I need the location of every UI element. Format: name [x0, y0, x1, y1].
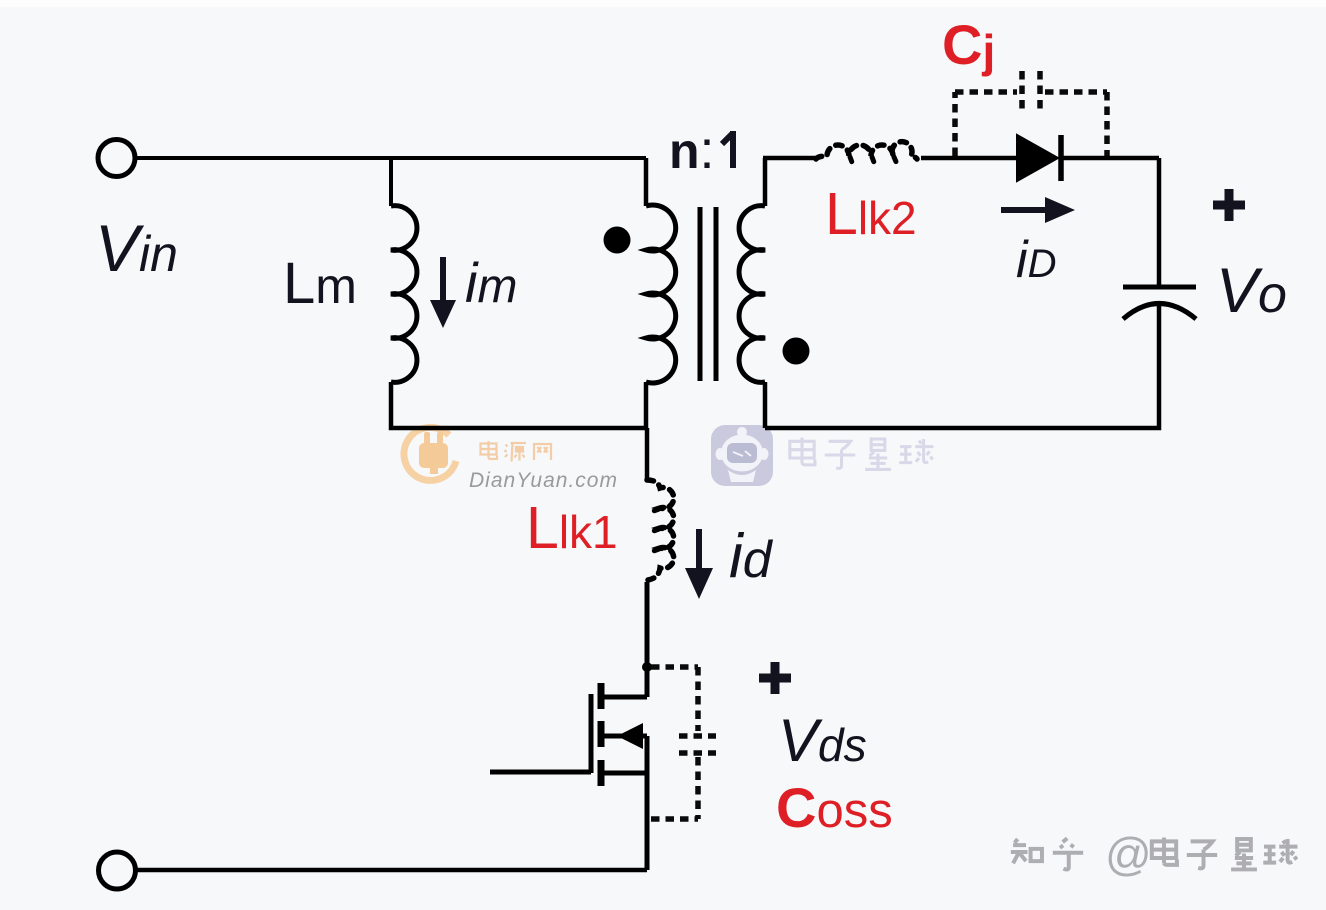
inductor Llk2 (dotted scribble)	[816, 142, 917, 159]
transformer primary winding	[646, 205, 676, 383]
node: drain junction dot	[642, 662, 652, 672]
inductor Llk1 (dotted scribble)	[647, 480, 674, 580]
arrow iD	[1001, 197, 1075, 223]
wire: secondary vertical bottom	[763, 382, 768, 428]
wire: Lm branch vertical bottom + left loop bottom rail	[391, 382, 646, 428]
transformer core	[700, 207, 716, 381]
watermark: dianyuan chinese text	[481, 441, 552, 462]
label + (output)	[1213, 189, 1245, 221]
capacitor Cj (dashed)	[955, 71, 1107, 156]
input terminal (top)	[98, 140, 135, 177]
wire: secondary vertical top	[763, 158, 768, 206]
svg-text:Vo: Vo	[1216, 256, 1287, 326]
transformer secondary winding	[739, 206, 765, 383]
svg-text:im: im	[465, 251, 517, 314]
arrow id	[685, 529, 713, 599]
label + (Vds)	[759, 662, 791, 694]
capacitor Co	[1123, 287, 1196, 319]
wire: secondary top rail diode to right corner	[1061, 156, 1159, 161]
capacitor Coss (dashed)	[651, 667, 716, 819]
watermark: dianzi xingqiu logo	[711, 425, 773, 486]
wire: right vertical above capacitor	[1157, 158, 1162, 287]
watermark: dianyuan ring logo	[404, 427, 456, 480]
wire: primary bottom	[644, 382, 649, 428]
svg-text:n:: n:	[669, 120, 715, 180]
wire: source vertical to bottom rail	[645, 773, 650, 870]
wire: Lm branch vertical top	[389, 158, 393, 206]
wire: top rail from terminal to transformer primary	[136, 156, 646, 160]
wire: right vertical below capacitor + secondary bottom rail	[765, 303, 1159, 428]
inductor Llk2 lower curls	[850, 157, 897, 165]
secondary dot	[783, 338, 810, 365]
input terminal (bottom)	[99, 852, 136, 889]
wire: bottom rail	[136, 868, 647, 873]
watermark: zhihu credit	[1011, 838, 1298, 870]
inductor Llk1 inner curls	[651, 509, 659, 552]
arrow im	[430, 257, 456, 328]
inductor Lm	[391, 206, 417, 383]
transformer primary vertical wire	[644, 158, 649, 206]
wire: drain branch from primary down to Llk1	[645, 428, 650, 480]
label n:1	[669, 120, 733, 180]
wire: secondary top rail Llk2 to diode	[921, 156, 1017, 161]
watermark: dianzi xingqiu text	[790, 438, 934, 470]
svg-text:id: id	[729, 522, 774, 591]
svg-text:@: @	[1105, 828, 1152, 880]
transistor Q (MOSFET)	[490, 683, 647, 786]
body-diode arrow of MOSFET	[617, 723, 643, 749]
primary dot	[604, 227, 631, 254]
svg-text:Coss: Coss	[776, 776, 893, 839]
svg-text:DianYuan.com: DianYuan.com	[469, 469, 618, 492]
wire: drain vertical Llk1 to MOSFET	[645, 582, 650, 697]
svg-text:Lm: Lm	[283, 251, 357, 316]
wire: secondary top rail left of Llk2	[763, 156, 816, 161]
diode D	[1017, 135, 1061, 181]
